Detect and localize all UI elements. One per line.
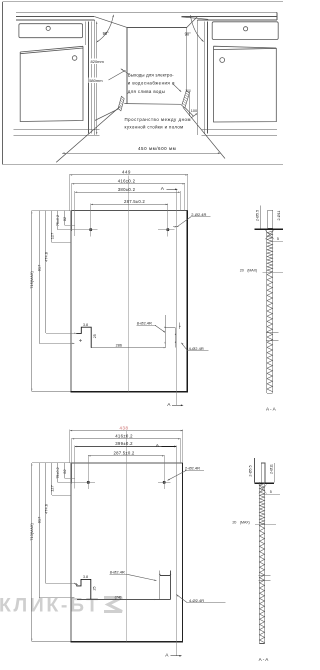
svg-text:2-Ø5.5: 2-Ø5.5 (249, 465, 253, 476)
svg-text:и водоснабжения и: и водоснабжения и (128, 81, 175, 86)
svg-text:90°: 90° (103, 31, 110, 36)
strip tick marks (266, 332, 278, 334)
countertop bottom line right (197, 19, 277, 21)
left door knob (72, 56, 77, 61)
svg-text:817: 817 (37, 265, 42, 272)
back wall right edge (186, 27, 188, 91)
left drawer front (19, 24, 83, 38)
main panel rectangle (bottom) (71, 462, 183, 464)
svg-text:4-Ø2.4R: 4-Ø2.4R (189, 598, 204, 603)
svg-text:287.5±0.2: 287.5±0.2 (114, 451, 135, 456)
countertop middle line right (181, 15, 277, 17)
dim 286 (91, 347, 166, 349)
left cabinet side panel lines (84, 22, 86, 45)
dim 287.5±0.2 (bottom) (88, 455, 164, 457)
dim 416±0.2 (72, 183, 185, 185)
svg-text:A - A: A - A (266, 407, 277, 412)
svg-text:715(MAX): 715(MAX) (29, 271, 34, 289)
countertop back edge perspective (181, 17, 208, 19)
svg-text:25: 25 (92, 587, 96, 591)
820mm vertical dimension (96, 22, 98, 135)
svg-text:127: 127 (49, 485, 54, 492)
bracket edge line (bottom view) (253, 458, 255, 483)
right drawer front (212, 22, 278, 40)
dim 438 (red) (70, 430, 183, 432)
2-dia11 extension line (273, 463, 275, 483)
svg-text:Выходы для электро-: Выходы для электро- (128, 73, 174, 78)
middle mounting template diagram (29, 170, 210, 408)
svg-text:438: 438 (120, 425, 129, 430)
dim 82 (64, 211, 66, 226)
svg-text:4-Ø2.4R: 4-Ø2.4R (189, 346, 204, 351)
mounting hole right 2-dia2.5 (166, 228, 169, 231)
seal strip with zigzag (bottom view) (258, 482, 260, 643)
svg-text:2-Ø5.5: 2-Ø5.5 (256, 210, 260, 221)
right cabinet side panel lines (196, 20, 198, 135)
svg-text:817: 817 (37, 517, 42, 524)
bottom section view A-A (232, 458, 280, 662)
dim (74) (77, 599, 171, 601)
dim 82 (bottom) (64, 463, 66, 478)
dim 127 (bottom) (51, 463, 53, 495)
100 vertical dimension (188, 91, 190, 116)
mounting tab bar (268, 210, 273, 228)
dim 416±0.2 (bottom) (72, 438, 180, 440)
zigzag lower (bottom) (260, 523, 265, 643)
dim 380±0.2 (75, 191, 180, 193)
section line A-A (176, 189, 178, 405)
left dims reference tick (32, 210, 71, 212)
450mm/600mm dimension (56, 106, 120, 162)
svg-text:3.8: 3.8 (83, 323, 88, 327)
svg-text:90°: 90° (185, 32, 192, 37)
right 90deg angle annotation (190, 15, 203, 41)
opening floor line (124, 103, 181, 106)
svg-text:127: 127 (49, 233, 54, 240)
svg-text:416±0.2: 416±0.2 (115, 434, 133, 439)
svg-text:20 (MAX): 20 (MAX) (240, 268, 258, 272)
dim 817 (bottom) (38, 463, 40, 598)
outer border frame left (2, 2, 4, 165)
dim 713(MAX) (bottom) (31, 463, 33, 642)
mounting hole left 2-dia2.5 (89, 228, 92, 231)
left drawer knob (46, 26, 50, 30)
svg-text:82: 82 (63, 217, 67, 221)
small cross marker (bottom) (75, 584, 78, 586)
bottom mounting template diagram (29, 425, 225, 658)
right plinth line 2 (202, 134, 277, 136)
small cross marker (79, 340, 82, 342)
left 90deg angle annotation (96, 15, 113, 43)
hook detail (bottom) (159, 571, 161, 600)
svg-text:20 (MAX): 20 (MAX) (232, 521, 250, 525)
left plinth line 2 (14, 134, 100, 136)
svg-text:5: 5 (277, 237, 279, 241)
svg-text:для слива воды: для слива воды (128, 89, 165, 94)
svg-text:8-Ø2.4R: 8-Ø2.4R (137, 321, 152, 326)
svg-text:25: 25 (93, 334, 97, 338)
floor front edge left (95, 109, 119, 121)
svg-text:416±0.2: 416±0.2 (118, 179, 136, 184)
svg-text:кухонной стойки и полом: кухонной стойки и полом (125, 125, 184, 130)
mounting hole right (bottom) (163, 481, 166, 484)
seal strip with zigzag (266, 230, 268, 393)
flange bar (bottom view) (254, 483, 274, 485)
left hatched strip (118, 96, 124, 111)
svg-text:Пространство между дном: Пространство между дном (125, 117, 192, 122)
svg-text:286: 286 (116, 344, 122, 348)
svg-text:2-Ø2.4R: 2-Ø2.4R (185, 466, 200, 471)
svg-text:8-Ø2.4R: 8-Ø2.4R (110, 569, 125, 574)
svg-text:287.5±0.2: 287.5±0.2 (124, 199, 145, 204)
right cabinet door (214, 46, 277, 122)
dim 449 (70, 174, 188, 176)
svg-text:(74): (74) (115, 595, 122, 599)
dim 399±0.2 (bottom) (75, 446, 176, 448)
svg-text:100: 100 (191, 109, 197, 113)
svg-text:450 мм/600 мм: 450 мм/600 мм (138, 146, 176, 151)
countertop bottom line left (16, 19, 95, 21)
svg-text:820mm: 820mm (91, 59, 105, 64)
left cabinet door (20, 46, 83, 121)
dim 817 (38, 211, 40, 344)
mounting hole left (bottom) (87, 481, 90, 484)
svg-text:2-Ø11: 2-Ø11 (270, 464, 274, 474)
dim 75±0.2 (57, 211, 59, 230)
watermark KLIK-BT (0, 595, 122, 617)
perspective diagonal left (95, 17, 127, 28)
svg-text:A - A: A - A (259, 657, 270, 662)
zigzag upper (bottom) (260, 484, 265, 525)
middle section view A-A (240, 206, 283, 412)
flange bar (254, 228, 283, 230)
svg-text:100: 100 (185, 89, 191, 93)
right drawer knob (244, 27, 248, 31)
svg-text:580mm: 580mm (89, 78, 103, 83)
svg-text:3.8: 3.8 (83, 575, 88, 579)
zigzag lower (267, 272, 273, 392)
countertop top line (16, 11, 277, 13)
main panel rectangle (71, 210, 187, 212)
vertical centerline (bottom) (126, 431, 128, 641)
hook detail (164, 315, 166, 348)
580mm label with leader (89, 78, 109, 84)
x hatch below flange (265, 230, 274, 239)
floor front edge right (185, 108, 193, 117)
right door knob (220, 58, 225, 63)
back wall left edge (126, 27, 128, 103)
vertical centerline (127, 176, 129, 392)
section line A-A (bottom) (175, 446, 177, 655)
x hatch below flange (bottom view) (259, 485, 267, 494)
svg-text:5: 5 (270, 490, 272, 494)
notch detail 3.8 / 25 (76, 327, 91, 348)
left plinth line 1 (14, 129, 100, 131)
countertop right end (276, 12, 278, 20)
svg-text:713(MAX): 713(MAX) (29, 523, 34, 541)
dim 474.8 (45, 211, 47, 334)
dim 127 (51, 211, 53, 243)
dim 474.6 (bottom) (45, 463, 47, 584)
zigzag upper (267, 231, 273, 272)
svg-text:75±0.2: 75±0.2 (56, 215, 60, 226)
right plinth line 1 (202, 129, 277, 131)
top installation diagram (3, 2, 284, 165)
bracket edge line (259, 206, 261, 229)
svg-text:474.6: 474.6 (43, 504, 48, 514)
svg-text:449: 449 (122, 170, 131, 175)
svg-text:82: 82 (63, 469, 67, 473)
notch detail 3.8 / 25 (bottom) (76, 579, 91, 599)
dim 287.5±0.2 (91, 203, 168, 205)
dim 75±0.2 (bottom) (57, 463, 59, 483)
right hatched strip (182, 91, 190, 108)
countertop middle line left (16, 15, 95, 17)
mounting tab bar (bottom view) (261, 463, 265, 483)
svg-text:2-Ø2.4R: 2-Ø2.4R (191, 212, 206, 217)
svg-text:75±0.2: 75±0.2 (56, 467, 60, 478)
outer border frame bottom (3, 163, 284, 165)
dim 715(MAX) (31, 211, 33, 392)
svg-text:474.8: 474.8 (43, 252, 48, 262)
outer border frame top (3, 1, 284, 3)
opening left wall (94, 20, 96, 135)
left dims reference tick (bottom) (32, 462, 71, 464)
perspective diagonal right (187, 17, 198, 28)
strip tick marks (bottom view) (259, 574, 271, 576)
svg-text:399±0.2: 399±0.2 (115, 441, 133, 446)
back wall top edge (127, 26, 187, 28)
svg-text:380±0.2: 380±0.2 (118, 187, 136, 192)
svg-text:2-Ø11: 2-Ø11 (277, 211, 281, 221)
